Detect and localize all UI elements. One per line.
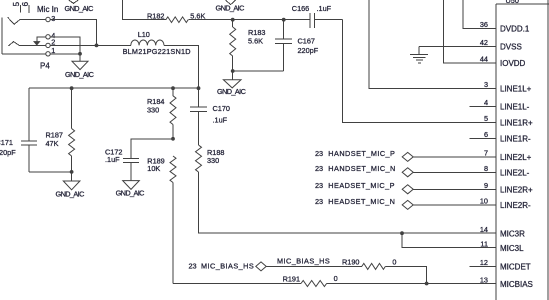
wire DVDD (pin 36) (463, 0, 496, 28)
junction rail/R184 (171, 86, 175, 90)
svg-text:GND_AIC: GND_AIC (65, 70, 94, 79)
P4 pin 1 circle (46, 52, 50, 56)
svg-text:23: 23 (315, 181, 323, 190)
svg-text:0: 0 (334, 274, 338, 283)
node R183 top (231, 18, 235, 22)
svg-text:10K: 10K (147, 164, 160, 173)
wire R188 to MIC3R (199, 172, 497, 233)
svg-text:13: 13 (480, 275, 488, 284)
svg-text:R191: R191 (283, 274, 300, 283)
svg-text:L10: L10 (138, 30, 150, 39)
svg-text:MICBIAS: MICBIAS (500, 280, 533, 289)
svg-text:LINE2L+: LINE2L+ (500, 153, 532, 162)
wire MIC_BIAS_HS to R190 (266, 265, 362, 267)
svg-text:BLM21PG221SN1D: BLM21PG221SN1D (123, 47, 191, 56)
ground GND_AIC below R187 (71, 172, 73, 181)
svg-text:3: 3 (51, 14, 55, 23)
wire pin 4 down (50, 37, 80, 54)
svg-text:GND_AIC: GND_AIC (56, 190, 85, 199)
svg-text:LINE1L-: LINE1L- (500, 103, 530, 112)
svg-text:LINE1R-: LINE1R- (500, 135, 531, 144)
svg-text:330: 330 (147, 106, 159, 115)
wire C166 to LINE1R+ (pin 5) (343, 20, 497, 123)
svg-text:MIC3L: MIC3L (500, 244, 524, 253)
wire L10 to rail (164, 45, 199, 88)
svg-text:.1uF: .1uF (213, 116, 228, 125)
wire to LINE2R- (pin 10) (413, 204, 496, 206)
svg-text:5: 5 (484, 114, 488, 123)
svg-text:5.6K: 5.6K (248, 37, 263, 46)
wire to LINE2L+ (pin 7) (413, 156, 496, 158)
svg-text:C166: C166 (292, 4, 309, 13)
svg-text:DVDD.1: DVDD.1 (500, 25, 530, 34)
ground GND_AIC below R183 (232, 71, 234, 80)
svg-text:GND_AIC: GND_AIC (65, 4, 94, 13)
stub LINE1L- (pin 4) (469, 105, 496, 107)
wire pin 2 to L10 (50, 44, 131, 46)
svg-text:MIC_BIAS_HS: MIC_BIAS_HS (277, 257, 330, 266)
junction R184/C172 (171, 137, 175, 141)
svg-text:23: 23 (315, 149, 323, 158)
switch arm wire from pin 4 (37, 37, 46, 42)
P4 pin 2 contact (8, 42, 46, 46)
junction R183 gnd (231, 69, 235, 73)
svg-text:LINE2R+: LINE2R+ (500, 186, 533, 195)
svg-text:R182: R182 (147, 12, 164, 21)
svg-text:330: 330 (207, 156, 219, 165)
svg-text:MIC_BIAS_HS: MIC_BIAS_HS (201, 261, 254, 270)
wire R190 to MICBIAS net (385, 266, 426, 283)
svg-text:GND_AIC: GND_AIC (116, 189, 145, 198)
wire DVSS (pin 42) (419, 45, 496, 47)
wire R182 to C166 (188, 19, 309, 21)
svg-text:LINE2R-: LINE2R- (500, 201, 531, 210)
junction pin1/pin4 (78, 52, 82, 56)
svg-text:Mic In: Mic In (37, 5, 58, 14)
junction rail/R187 (70, 86, 74, 90)
svg-text:42: 42 (480, 38, 488, 47)
svg-text:3: 3 (484, 80, 488, 89)
stub LINE1R- (pin 6) (469, 137, 496, 139)
P4 pin 3 contact (8, 17, 46, 24)
P4 pin 6 stub (28, 5, 30, 13)
svg-text:6: 6 (484, 130, 488, 139)
svg-text:LINE1L+: LINE1L+ (500, 85, 532, 94)
svg-text:36: 36 (480, 20, 488, 29)
svg-text:MIC3R: MIC3R (500, 230, 525, 239)
wire from top to R182 (123, 0, 166, 20)
P4 pin 4 circle (46, 35, 50, 39)
svg-text:11: 11 (480, 239, 488, 248)
svg-text:C171: C171 (0, 138, 13, 147)
op-amp codec U50 box (495, 4, 497, 300)
svg-text:23: 23 (315, 164, 323, 173)
wire R189 to bottom rail (172, 183, 174, 284)
P4 pin 2 circle (46, 43, 50, 47)
svg-text:5: 5 (12, 1, 21, 6)
svg-text:6: 6 (21, 1, 30, 6)
svg-text:LINE1R+: LINE1R+ (500, 119, 533, 128)
wire R183 bottom to C167 bottom (233, 70, 284, 72)
svg-text:LINE2L-: LINE2L- (500, 169, 530, 178)
svg-text:.1uF: .1uF (317, 4, 332, 13)
ground GND_AIC below C172 (123, 181, 140, 190)
wire to MIC3L (pin 11) (402, 233, 496, 247)
capacitor C170 (198, 45, 200, 107)
svg-text:44: 44 (480, 55, 488, 64)
svg-text:0: 0 (392, 257, 396, 266)
junction R190/R191 (425, 282, 429, 286)
svg-text:12: 12 (480, 258, 488, 267)
svg-text:P4: P4 (40, 62, 50, 71)
ground GND_AIC below P4 (79, 54, 81, 62)
svg-text:GND_AIC: GND_AIC (217, 87, 246, 96)
svg-text:10: 10 (480, 197, 488, 206)
svg-text:C170: C170 (213, 104, 230, 113)
capacitor C172 (123, 158, 139, 160)
svg-text:MICDET: MICDET (500, 263, 531, 272)
wire page edge (547, 0, 549, 300)
svg-text:HANDSET_MIC_P: HANDSET_MIC_P (328, 149, 395, 158)
svg-text:8: 8 (484, 164, 488, 173)
svg-text:14: 14 (480, 225, 488, 234)
svg-text:HEADSET_MIC_N: HEADSET_MIC_N (328, 197, 395, 206)
wire to LINE2R+ (pin 9) (413, 188, 496, 190)
svg-text:IOVDD: IOVDD (500, 59, 526, 68)
P4 pin 3 circle (46, 17, 50, 21)
resistor R182 (166, 17, 188, 23)
ferrite bead L10 (131, 40, 164, 45)
wire to C172 (131, 139, 173, 159)
resistor R189 (170, 156, 176, 182)
node C167 top (282, 18, 286, 22)
ground GND_AIC (top middle, partial) (226, 0, 236, 5)
svg-text:220pF: 220pF (298, 46, 319, 55)
svg-text:R183: R183 (248, 28, 265, 37)
svg-text:GND_AIC: GND_AIC (216, 3, 245, 12)
capacitor C167 (283, 20, 285, 39)
junction gnd (70, 170, 74, 174)
svg-text:U50: U50 (506, 0, 519, 5)
svg-text:47K: 47K (46, 139, 59, 148)
svg-text:DVSS: DVSS (500, 43, 522, 52)
svg-text:9: 9 (484, 181, 488, 190)
svg-text:7: 7 (484, 149, 488, 158)
earth ground on DVSS (418, 46, 420, 54)
junction rail/C170 (197, 86, 201, 90)
svg-text:.1uF: .1uF (105, 155, 120, 164)
svg-text:4: 4 (484, 98, 488, 107)
wire from top to LINE1L+ (pin 3) (369, 0, 496, 88)
switch arrow (33, 41, 41, 46)
resistor R187 (71, 88, 73, 128)
connector P4 body (1, 18, 3, 54)
svg-text:23: 23 (189, 261, 197, 270)
resistor R188 (196, 145, 202, 172)
capacitor C171 (28, 88, 30, 141)
svg-text:C167: C167 (298, 37, 315, 46)
junction MIC3R/MIC3L (400, 231, 404, 235)
stub MICDET (pin 12) (469, 265, 496, 267)
svg-text:HEADSET_MIC_P: HEADSET_MIC_P (328, 181, 395, 190)
node junction pin3/pin2 (95, 44, 99, 48)
svg-text:23: 23 (315, 197, 323, 206)
P4 pin 5 stub (19, 5, 21, 13)
svg-text:R190: R190 (342, 258, 359, 267)
resistor R184 (172, 88, 174, 96)
wire pin 1 to ground (50, 53, 80, 55)
wire to LINE2L- (pin 8) (413, 171, 496, 173)
resistor R183 (232, 20, 234, 27)
ground GND_AIC (top left, partial) (69, 0, 78, 3)
svg-text:220pF: 220pF (0, 148, 16, 157)
capacitor C166 (309, 13, 311, 28)
wire pin3 to node (50, 20, 96, 46)
bottom rail wire to MICBIAS (pin 13) (173, 283, 301, 285)
wire sleeve to pin 1 (2, 53, 46, 55)
svg-text:HANDSET_MIC_N: HANDSET_MIC_N (328, 164, 395, 173)
wire C171 bottom to R187 bottom (29, 171, 72, 173)
wire IOVDD (pin 44) (444, 0, 497, 63)
rail wire (29, 87, 199, 89)
